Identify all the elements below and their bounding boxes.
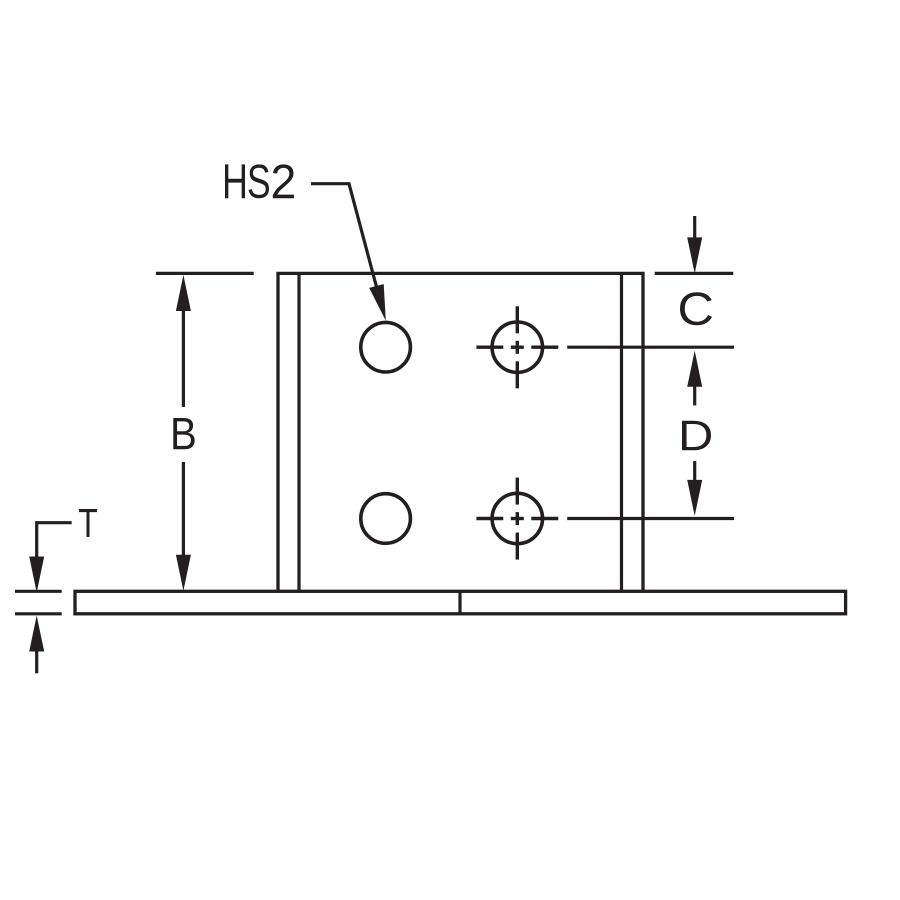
dimension B lower arrowhead: [176, 555, 191, 591]
glyph 2: [273, 164, 294, 198]
dimension C arrow shaft: [693, 216, 696, 245]
dimension C arrowhead: [687, 237, 702, 273]
glyph B: [173, 418, 194, 449]
extension line from hole H4 center: [567, 517, 734, 520]
extension line from hole H3 center: [567, 346, 734, 349]
hole H4 (bottom right, with center mark): [492, 493, 542, 543]
dimension D upper arrow shaft: [693, 380, 696, 405]
glyph S: [249, 164, 269, 198]
center mark of hole H4: [476, 478, 558, 560]
dimension B upper arrowhead: [176, 275, 191, 311]
base plate joint line: [458, 591, 461, 614]
glyph C: [680, 292, 712, 325]
hole H3 (top right, with center mark): [492, 322, 542, 372]
glyph T: [79, 509, 97, 537]
dimension T leader: [37, 523, 72, 560]
dimension B upper arrow shaft: [182, 295, 185, 407]
center mark of hole H3: [476, 306, 558, 388]
dimension D lower arrowhead: [687, 480, 702, 516]
dimension T extension tick upper: [15, 590, 62, 593]
dimension T extension tick lower: [15, 612, 62, 615]
left flange bend line: [297, 273, 300, 591]
dimension B lower arrow shaft: [182, 462, 185, 565]
HS2 leader arrowhead: [369, 284, 386, 321]
right flange bend line: [620, 273, 623, 591]
dimension C extension tick (top right): [655, 272, 734, 275]
hole H1 (top left, plain): [361, 322, 411, 372]
glyph D: [682, 421, 711, 450]
hole H2 (bottom left, plain): [361, 494, 411, 544]
leader line from HS2 label: [311, 184, 380, 300]
dimension D lower arrow shaft: [693, 461, 696, 487]
dimension T upper arrowhead (points down): [29, 557, 44, 593]
glyph H: [225, 164, 245, 198]
base plate: [75, 591, 846, 614]
dimension B extension tick (top left): [156, 272, 254, 275]
plate outline (front view, three sides): [278, 273, 643, 591]
dimension D upper arrowhead: [687, 351, 702, 387]
dimension T lower arrow shaft: [35, 645, 38, 673]
dimension T lower arrowhead (points up): [29, 616, 44, 652]
